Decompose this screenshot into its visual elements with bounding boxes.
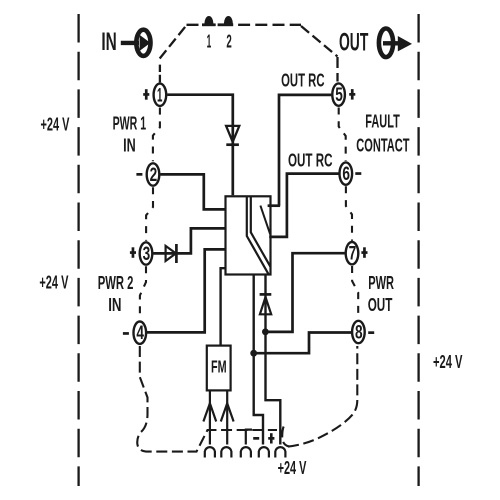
terminal 1: [154, 84, 167, 107]
svg-text:5: 5: [335, 85, 343, 106]
terminal 7: [346, 242, 359, 265]
svg-text:8: 8: [355, 323, 363, 344]
wire terminal 3 to converter left (with diode): [153, 228, 224, 253]
svg-text:PWR 1: PWR 1: [113, 114, 147, 134]
wire converter to FM: [221, 268, 226, 345]
IN port icon (arrow into circle): [121, 30, 151, 56]
jumper base 2: [218, 23, 234, 26]
svg-text:OUT RC: OUT RC: [288, 150, 333, 170]
module outline bottom-right dashed curve: [288, 346, 357, 447]
jumper button 1: [204, 16, 213, 24]
wire terminal 8 riser to lower node: [255, 333, 352, 354]
converter block U1: [226, 196, 271, 274]
wire terminal 2 to converter left: [160, 174, 224, 209]
jumper base 1: [202, 23, 216, 26]
svg-text:PWR: PWR: [368, 273, 394, 293]
converter positive output drop (vertical B through diode to socket 5): [266, 275, 281, 445]
svg-text:3: 3: [143, 244, 151, 265]
diode D3 (up, on vertical B): [260, 294, 272, 314]
diode D2 (right): [166, 244, 177, 263]
svg-text:IN: IN: [101, 28, 116, 56]
minus (terminal 2): [136, 173, 142, 176]
terminal 2: [147, 163, 160, 186]
wire terminal 6 to relay contact: [269, 174, 338, 237]
module outline dashes terminal 7-8: [352, 266, 358, 319]
terminal 5: [332, 83, 345, 106]
svg-text:7: 7: [349, 244, 357, 265]
junction node (diode top / terminal 7): [262, 328, 269, 335]
svg-text:4: 4: [136, 323, 144, 344]
FM lead 2 with arrow: [221, 390, 234, 444]
svg-text:2: 2: [150, 165, 158, 186]
svg-text:OUT: OUT: [368, 295, 393, 315]
module outline dashes terminal 5-6: [339, 108, 346, 162]
module outline dashes terminal 6-7: [346, 186, 352, 241]
svg-text:+24 V: +24 V: [41, 115, 70, 135]
label plus (socket 5): [268, 433, 274, 443]
svg-text:+24 V: +24 V: [39, 273, 68, 293]
right +24V rail dashed border: [417, 14, 419, 486]
module outline dashes terminal 2-3: [146, 187, 153, 241]
module outline top dashed path: [160, 25, 338, 83]
socket 4: [259, 447, 269, 457]
svg-text:2: 2: [226, 32, 231, 52]
minus (terminal 6): [355, 172, 361, 175]
FM lead 1 with arrow: [203, 390, 216, 444]
terminal 3: [140, 242, 153, 265]
OUT port icon (arrow out of circle): [379, 29, 412, 58]
svg-text:+24 V: +24 V: [433, 352, 463, 372]
terminal 6: [340, 162, 353, 185]
wire terminal 5 to relay contact: [279, 95, 331, 206]
plus (terminal 1): [143, 89, 149, 100]
svg-text:OUT: OUT: [339, 28, 369, 56]
socket 2: [221, 447, 231, 457]
minus (terminal 4): [123, 332, 129, 335]
svg-text:FM: FM: [211, 357, 227, 377]
svg-text:PWR 2: PWR 2: [98, 273, 134, 293]
left +24V rail dashed border: [77, 14, 79, 486]
module outline bottom-left dashed curve: [137, 346, 289, 452]
wire terminal 1 to converter top (with diode): [167, 95, 233, 196]
relay contact blade: [260, 206, 270, 235]
socket 3: [241, 447, 251, 457]
terminal 8: [352, 321, 365, 344]
socket 5: [275, 447, 285, 457]
svg-text:OUT RC: OUT RC: [281, 70, 324, 90]
converter negative output drop (vertical A to socket 4): [254, 275, 263, 445]
plus (terminal 3): [130, 247, 136, 257]
svg-text:CONTACT: CONTACT: [356, 136, 409, 156]
terminal 4: [134, 322, 147, 345]
svg-text:1: 1: [207, 32, 212, 52]
plus (terminal 7): [361, 247, 367, 257]
svg-text:IN: IN: [123, 135, 136, 155]
relay contact fixed lead: [268, 204, 281, 207]
svg-text:+24 V: +24 V: [278, 458, 307, 478]
svg-text:6: 6: [342, 164, 350, 185]
wire terminal 7 riser to diode node: [266, 253, 345, 332]
unconnected stub above socket 3: [246, 430, 252, 445]
wire terminal 4 to converter left: [147, 249, 225, 332]
module outline dashes terminal 3-4: [140, 266, 146, 319]
svg-text:IN: IN: [108, 295, 121, 315]
socket 1: [205, 447, 215, 457]
label minus (socket 4): [253, 437, 259, 440]
svg-text:1: 1: [157, 85, 163, 106]
FM block: [207, 346, 231, 391]
junction node (negative rail / terminal 8): [250, 350, 257, 357]
plus (terminal 5): [349, 89, 355, 100]
module outline dashes terminal 1-2: [153, 108, 160, 162]
svg-text:FAULT: FAULT: [365, 112, 400, 132]
diode D1 (down): [226, 126, 239, 145]
jumper button 2: [224, 16, 233, 24]
minus (terminal 8): [368, 331, 374, 334]
